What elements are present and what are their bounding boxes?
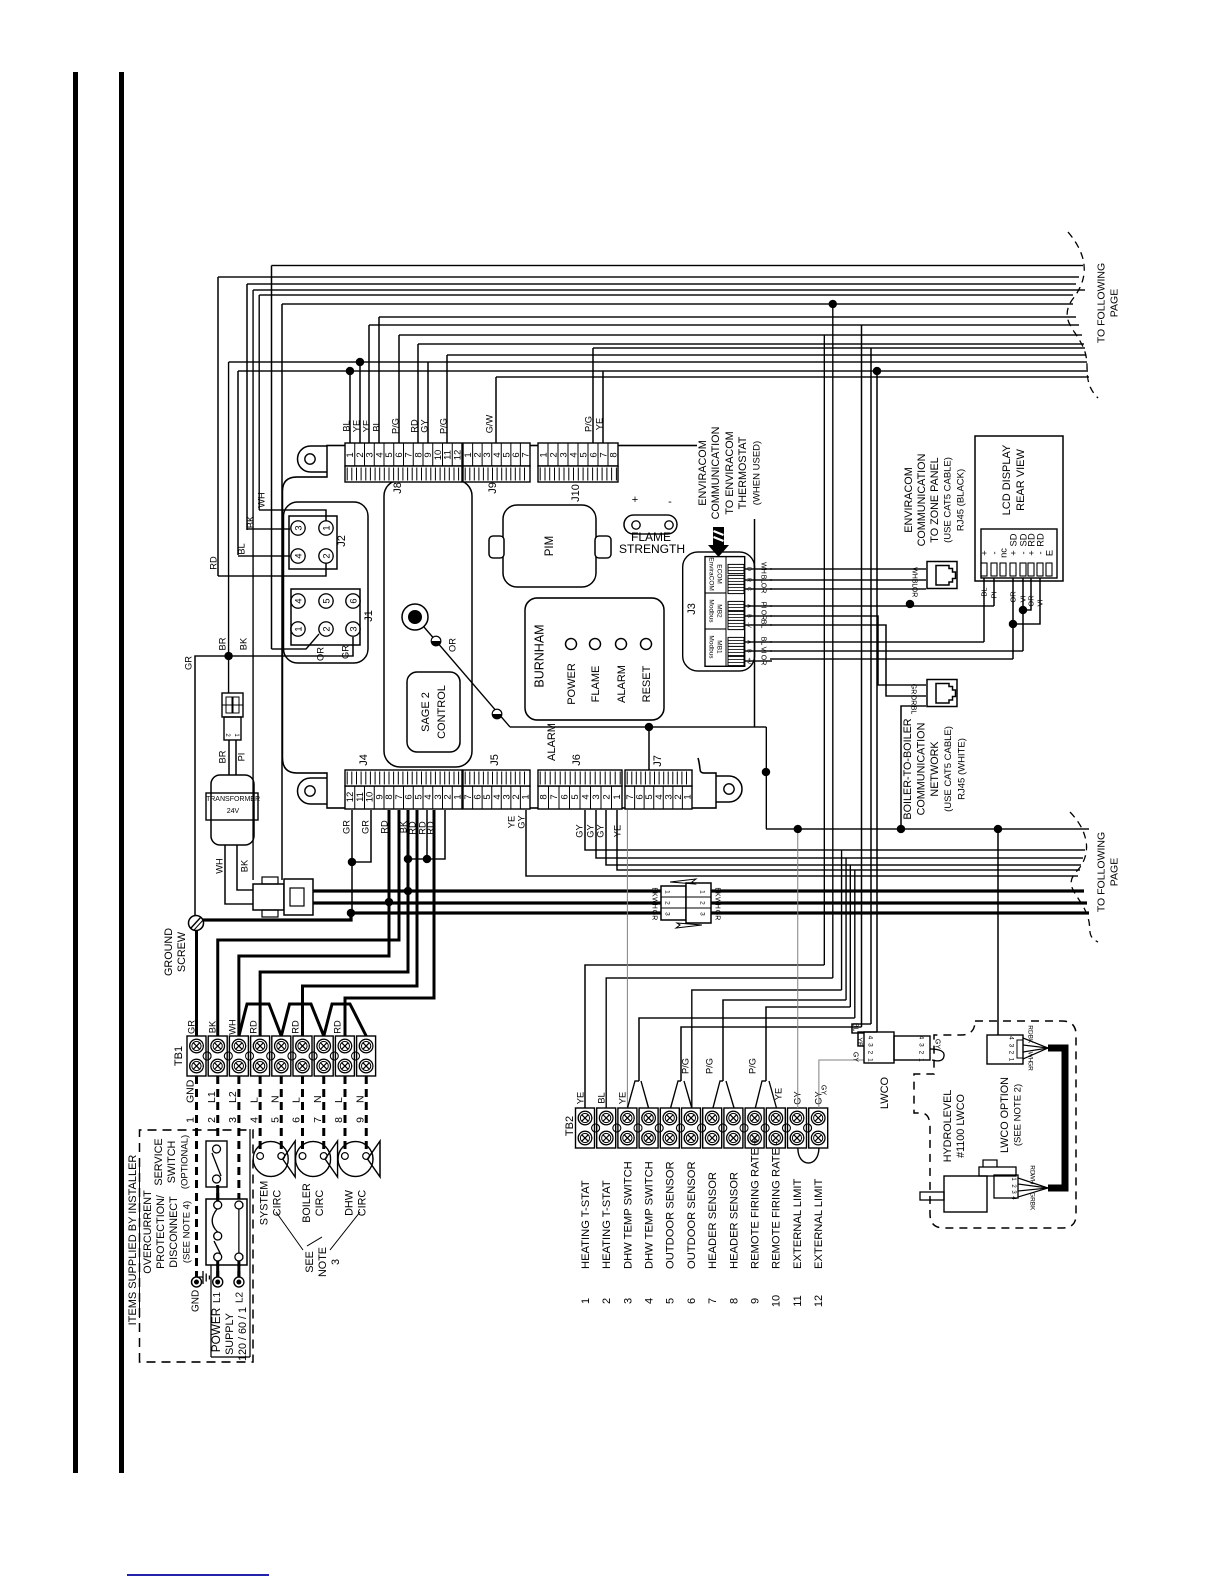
svg-text:REAR VIEW: REAR VIEW xyxy=(1015,449,1027,511)
TB1 terminal 7 xyxy=(314,1036,333,1076)
svg-text:BL: BL xyxy=(236,543,246,554)
svg-text:DISCONNECT: DISCONNECT xyxy=(168,1196,180,1268)
svg-text:GR: GR xyxy=(1027,1061,1034,1071)
svg-text:MB1: MB1 xyxy=(716,640,723,654)
J3 pin cells xyxy=(728,564,744,573)
svg-text:GR: GR xyxy=(714,910,721,921)
svg-text:SERVICE: SERVICE xyxy=(153,1138,165,1185)
potentiometer xyxy=(402,604,428,630)
svg-text:TO FOLLOWING: TO FOLLOWING xyxy=(1096,263,1108,343)
LWCO GY curl xyxy=(930,1049,944,1061)
arrow to J3 xyxy=(708,527,729,557)
connector J3 module outline xyxy=(683,552,755,671)
svg-text:HEATING T-STAT: HEATING T-STAT xyxy=(601,1180,613,1269)
wire TB2-12 GY xyxy=(819,1060,864,1108)
svg-text:4: 4 xyxy=(643,1298,655,1304)
wire BK TB1-2 to J4 xyxy=(218,810,399,1036)
svg-text:2: 2 xyxy=(601,1298,613,1304)
svg-text:PAGE: PAGE xyxy=(1109,858,1121,886)
mounting ear bottom-left xyxy=(298,778,327,804)
svg-text:P/G: P/G xyxy=(747,1058,757,1074)
svg-text:7: 7 xyxy=(521,452,532,457)
wire BL riser to RJ45 white xyxy=(901,706,926,829)
TB2 terminal 3 xyxy=(618,1108,637,1148)
svg-text:6: 6 xyxy=(348,598,358,603)
svg-text:OR: OR xyxy=(760,655,767,666)
wire xyxy=(259,294,1073,296)
RJ45 jack white xyxy=(927,680,957,707)
connector J7 xyxy=(625,786,692,809)
pair merge TB2 7-8 xyxy=(713,1081,723,1108)
off-page connector arc (top) xyxy=(1067,232,1098,398)
svg-text:BR: BR xyxy=(217,637,227,650)
wire xyxy=(258,295,260,510)
svg-text:P/G: P/G xyxy=(583,416,593,432)
svg-text:3: 3 xyxy=(918,1043,925,1047)
TB2 terminal 12 xyxy=(809,1108,828,1148)
svg-text:GND: GND xyxy=(185,1079,197,1103)
svg-text:+: + xyxy=(979,550,989,555)
svg-text:4: 4 xyxy=(918,1036,925,1040)
svg-text:TB1: TB1 xyxy=(173,1046,185,1066)
wire riser J8 pin2 xyxy=(359,362,361,443)
LWCO option connector top xyxy=(987,1035,1023,1064)
svg-text:OR: OR xyxy=(760,583,767,594)
svg-text:SD: SD xyxy=(1008,533,1018,546)
LED FLAME xyxy=(590,639,601,650)
wire GR TB1-1 to ground screw xyxy=(195,931,198,1037)
svg-text:BK: BK xyxy=(207,1020,217,1033)
svg-text:3: 3 xyxy=(664,912,671,916)
svg-text:9: 9 xyxy=(354,1117,366,1123)
svg-text:SAGE 2: SAGE 2 xyxy=(420,692,432,732)
svg-text:WH: WH xyxy=(714,897,721,909)
svg-text:STRENGTH: STRENGTH xyxy=(619,542,685,556)
TB1 terminal 1 xyxy=(187,1036,206,1076)
svg-text:WH: WH xyxy=(256,492,266,508)
wire J4 p4-p2 jumper xyxy=(408,810,445,859)
svg-text:PI: PI xyxy=(236,753,246,762)
svg-text:1: 1 xyxy=(521,794,532,799)
svg-text:YE: YE xyxy=(575,1092,585,1104)
svg-text:5: 5 xyxy=(321,598,331,603)
leader lines see note xyxy=(276,1212,303,1250)
circulator BOILER xyxy=(296,1142,331,1177)
svg-text:GY: GY xyxy=(574,824,584,837)
wire xyxy=(399,334,1082,336)
svg-text:RD: RD xyxy=(409,419,419,433)
svg-text:GR: GR xyxy=(341,820,351,834)
wire xyxy=(447,354,1086,356)
wire xyxy=(271,266,273,650)
svg-text:BL: BL xyxy=(760,637,767,646)
svg-text:2: 2 xyxy=(321,626,331,631)
junction dot xyxy=(762,768,770,776)
svg-text:2: 2 xyxy=(867,1051,874,1055)
wire WH to RJ45 black xyxy=(770,568,926,570)
overcurrent device box xyxy=(206,1199,247,1265)
svg-text:GR: GR xyxy=(183,656,193,670)
svg-text:9: 9 xyxy=(749,1298,761,1304)
wire xyxy=(238,370,1088,372)
svg-text:GY: GY xyxy=(792,1091,802,1104)
svg-text:COMMUNICATION: COMMUNICATION xyxy=(710,427,722,520)
svg-text:2: 2 xyxy=(918,1051,925,1055)
adjust screw 1 xyxy=(431,636,441,646)
svg-text:1: 1 xyxy=(580,1298,592,1304)
svg-text:GY: GY xyxy=(820,1085,827,1095)
svg-text:PIM: PIM xyxy=(544,536,556,556)
wire xyxy=(832,304,834,978)
svg-text:5: 5 xyxy=(665,1298,677,1304)
wire xyxy=(606,810,1081,865)
wire BL MB1 to LCD xyxy=(770,641,984,643)
wire RD to J2 pin2 xyxy=(218,563,326,576)
wire J4 p12 GR xyxy=(351,810,353,913)
page margin bar 1 xyxy=(73,72,78,1473)
LCD pin drop wires xyxy=(983,578,985,642)
svg-text:4: 4 xyxy=(1008,1036,1015,1040)
svg-text:2: 2 xyxy=(699,901,706,905)
power supply enclosure xyxy=(249,1129,251,1357)
svg-text:RD: RD xyxy=(1027,1025,1034,1035)
svg-text:(SEE NOTE 2): (SEE NOTE 2) xyxy=(1012,1084,1023,1146)
TB2 terminal 5 xyxy=(660,1108,679,1148)
svg-text:1: 1 xyxy=(293,626,303,631)
ground screw xyxy=(189,916,204,931)
svg-text:TB2: TB2 xyxy=(564,1116,576,1136)
wire BL MB2 down to RJ45 white xyxy=(770,625,926,696)
junction dot xyxy=(348,858,356,866)
wire xyxy=(841,850,843,990)
svg-text:BK: BK xyxy=(245,515,255,528)
wire GR from J1 pin3 to ground screw xyxy=(195,637,353,916)
wire xyxy=(379,316,1076,318)
svg-text:1: 1 xyxy=(452,794,463,799)
svg-text:OUTDOOR SENSOR: OUTDOOR SENSOR xyxy=(686,1161,698,1269)
svg-text:YE: YE xyxy=(506,816,516,828)
svg-text:PI: PI xyxy=(760,602,767,609)
ground symbol xyxy=(198,1276,203,1278)
wire bundle to following page (middle) xyxy=(766,828,1089,830)
svg-text:3: 3 xyxy=(622,1298,634,1304)
connector J3 xyxy=(705,557,745,667)
LED RESET xyxy=(641,639,652,650)
svg-text:P/G: P/G xyxy=(438,418,448,434)
svg-text:EnviraCOM: EnviraCOM xyxy=(708,557,715,591)
TB1 terminal 4 xyxy=(251,1036,270,1076)
page margin bar 2 xyxy=(119,72,124,1473)
svg-text:L2: L2 xyxy=(227,1091,239,1103)
svg-text:GR: GR xyxy=(360,820,370,834)
wire xyxy=(861,325,863,1027)
LWCO connector xyxy=(864,1032,894,1063)
svg-text:11: 11 xyxy=(792,1295,804,1306)
svg-text:LWCO: LWCO xyxy=(879,1076,891,1109)
svg-text:PROTECTION/: PROTECTION/ xyxy=(155,1195,167,1269)
wire xyxy=(849,865,851,1007)
dashed wire TB1-2 to L1 xyxy=(216,1076,219,1277)
TB1 terminal 3 xyxy=(229,1036,248,1076)
svg-text:2: 2 xyxy=(321,553,331,558)
svg-text:2: 2 xyxy=(224,733,230,737)
transformer secondary wires xyxy=(225,845,253,904)
svg-text:P/G: P/G xyxy=(680,1058,690,1074)
wire xyxy=(496,376,1089,378)
LCD display box xyxy=(975,436,1063,581)
connector J4 xyxy=(345,786,462,809)
dashed wires TB1 4-9 to circulators xyxy=(259,1076,262,1151)
svg-text:24V: 24V xyxy=(227,808,240,815)
svg-text:NETWORK: NETWORK xyxy=(929,741,941,797)
wire xyxy=(585,810,1085,850)
wire OR MB2 down to RJ45 white xyxy=(770,616,926,685)
connector J2 xyxy=(289,516,337,569)
svg-text:HEADER SENSOR: HEADER SENSOR xyxy=(728,1172,740,1269)
wire xyxy=(247,283,1076,285)
svg-text:GY: GY xyxy=(516,815,526,828)
TB2 terminal 6 xyxy=(682,1108,701,1148)
connector J5 xyxy=(463,786,530,809)
svg-text:L: L xyxy=(248,1097,260,1103)
svg-text:J10: J10 xyxy=(570,484,582,502)
junction dot LCD crossover 2 xyxy=(1009,620,1017,628)
RJ45 jack black xyxy=(927,562,957,589)
svg-text:J8: J8 xyxy=(392,482,404,494)
svg-text:P/G: P/G xyxy=(390,418,400,434)
svg-text:EXTERNAL LIMIT: EXTERNAL LIMIT xyxy=(792,1178,804,1269)
circulator DHW xyxy=(338,1142,373,1177)
svg-text:BK: BK xyxy=(714,887,721,897)
wire TB2-1 up xyxy=(585,965,824,1108)
svg-text:TO FOLLOWING: TO FOLLOWING xyxy=(1096,832,1108,912)
LWCO wires in xyxy=(852,1024,871,1033)
svg-text:OR: OR xyxy=(315,647,325,661)
svg-text:BL: BL xyxy=(760,620,767,629)
svg-text:THERMOSTAT: THERMOSTAT xyxy=(737,436,749,509)
svg-text:4: 4 xyxy=(867,1036,874,1040)
svg-text:TO ENVIRACOM: TO ENVIRACOM xyxy=(724,431,736,514)
svg-text:1: 1 xyxy=(233,733,239,737)
svg-text:ALARM: ALARM xyxy=(616,665,628,703)
wire xyxy=(526,810,1078,876)
connector J9 xyxy=(463,443,530,466)
wire riser J8 pin1 xyxy=(349,371,351,443)
svg-text:YE: YE xyxy=(617,1092,627,1104)
TB2 terminal 7 xyxy=(703,1108,722,1148)
adjust screw 2 xyxy=(492,709,502,719)
svg-text:(USE CAT5 CABLE): (USE CAT5 CABLE) xyxy=(943,726,954,812)
svg-text:YE: YE xyxy=(361,420,371,432)
wire xyxy=(252,290,254,880)
junction dot BR/GR xyxy=(224,652,232,660)
jumper TB1 5-7 xyxy=(281,1004,324,1036)
svg-text:TO ZONE PANEL: TO ZONE PANEL xyxy=(929,457,941,542)
wire OR to J1 pin2 xyxy=(272,634,320,649)
svg-text:1: 1 xyxy=(612,794,623,799)
svg-text:OR: OR xyxy=(910,695,917,706)
wire xyxy=(870,348,872,1024)
svg-text:TRANSFORMER: TRANSFORMER xyxy=(206,796,260,803)
connector J10 xyxy=(538,443,618,466)
display board xyxy=(525,598,664,720)
svg-text:WH: WH xyxy=(651,897,658,909)
3-pin latch arrows xyxy=(670,879,696,884)
jumper TB1 3-5 xyxy=(239,1004,281,1036)
svg-text:4: 4 xyxy=(581,794,592,799)
svg-text:NOTE: NOTE xyxy=(317,1247,329,1277)
TB2 terminal 10 xyxy=(766,1108,785,1148)
wire J4 p10 GR xyxy=(352,810,371,862)
board inner module rect (J8/J4 column) xyxy=(384,480,472,767)
wire BL to RJ45 black xyxy=(770,579,926,581)
dashed wire TB1-3 to L2 xyxy=(237,1076,240,1277)
svg-text:DHW TEMP SWITCH: DHW TEMP SWITCH xyxy=(644,1161,656,1269)
svg-text:RD: RD xyxy=(332,1020,342,1034)
junction dot external limit xyxy=(794,825,802,833)
svg-text:RD: RD xyxy=(248,1020,258,1034)
TB1 terminal 5 xyxy=(272,1036,291,1076)
TB2 terminal 8 xyxy=(724,1108,743,1148)
circulator SYSTEM xyxy=(253,1142,288,1177)
svg-text:BK: BK xyxy=(651,887,658,897)
pair merge TB2 5-6 xyxy=(671,1081,681,1108)
svg-text:OR: OR xyxy=(760,610,767,621)
thick wire BK xyxy=(313,889,1084,892)
module PIM xyxy=(503,505,596,587)
svg-text:OUTDOOR SENSOR: OUTDOOR SENSOR xyxy=(665,1161,677,1269)
wire xyxy=(218,276,1079,278)
svg-text:6: 6 xyxy=(686,1298,698,1304)
svg-text:J4: J4 xyxy=(358,754,370,766)
svg-text:GY: GY xyxy=(419,419,429,432)
svg-text:ITEMS SUPPLIED BY INSTALLER: ITEMS SUPPLIED BY INSTALLER xyxy=(127,1155,139,1326)
svg-text:N: N xyxy=(354,1095,366,1103)
junction dot alarm xyxy=(645,723,653,731)
svg-text:YE: YE xyxy=(351,420,361,432)
dashed wire TB1-1 to power GND xyxy=(195,1076,198,1277)
LED POWER xyxy=(566,639,577,650)
wire WH TB1-3 to J4 xyxy=(239,810,389,1036)
wire xyxy=(217,277,219,576)
svg-text:SUPPLY: SUPPLY xyxy=(224,1313,236,1355)
wire pot diagonal xyxy=(424,627,510,727)
svg-text:L2: L2 xyxy=(235,1291,246,1303)
svg-text:120 / 60 / 1: 120 / 60 / 1 xyxy=(237,1307,249,1361)
svg-text:J6: J6 xyxy=(571,754,583,766)
wire xyxy=(596,810,1083,858)
TB2 terminal 2 xyxy=(597,1108,616,1148)
svg-text:8: 8 xyxy=(728,1298,740,1304)
svg-text:10: 10 xyxy=(771,1295,783,1307)
svg-text:+: + xyxy=(632,494,638,506)
svg-text:-: - xyxy=(668,496,672,508)
junction dot LCD crossover 1 xyxy=(1019,606,1027,614)
svg-text:J2: J2 xyxy=(336,535,348,547)
svg-text:L: L xyxy=(291,1097,303,1103)
junction dots on thick wires xyxy=(385,898,393,906)
external limit jumper loop xyxy=(798,1148,819,1163)
svg-text:EXTERNAL LIMIT: EXTERNAL LIMIT xyxy=(813,1178,825,1269)
svg-text:7: 7 xyxy=(312,1117,324,1123)
wire RD TB1-4 to J4 xyxy=(260,810,408,1036)
connector J8 xyxy=(345,443,462,466)
connector J6 xyxy=(538,786,622,809)
wire J9 pin4 riser xyxy=(495,377,497,443)
mounting ear top-left xyxy=(298,446,327,472)
svg-text:CIRC: CIRC xyxy=(271,1190,283,1217)
wire xyxy=(876,371,878,1032)
svg-text:ENVIRACOM: ENVIRACOM xyxy=(697,440,709,505)
LCD pin connector xyxy=(981,529,1057,578)
svg-text:E: E xyxy=(1044,550,1054,556)
svg-text:COMMUNICATION: COMMUNICATION xyxy=(915,723,927,816)
wire xyxy=(228,362,230,656)
svg-text:BR: BR xyxy=(217,750,227,763)
junction dot J8 pin2 tap xyxy=(356,358,364,366)
svg-text:HEATING T-STAT: HEATING T-STAT xyxy=(580,1180,592,1269)
svg-text:2: 2 xyxy=(664,901,671,905)
svg-text:SYSTEM: SYSTEM xyxy=(258,1181,270,1225)
jumper TB1 7-9 xyxy=(324,1004,366,1036)
wire xyxy=(617,810,1080,870)
svg-text:12: 12 xyxy=(813,1295,825,1307)
svg-text:BK: BK xyxy=(238,637,248,650)
svg-text:5: 5 xyxy=(570,794,581,799)
svg-text:Modbus: Modbus xyxy=(708,635,715,659)
wire OR MB1 to LCD xyxy=(770,658,1013,660)
svg-text:3: 3 xyxy=(699,912,706,916)
svg-text:J7: J7 xyxy=(652,755,664,767)
svg-text:3: 3 xyxy=(330,1259,342,1265)
wire VI MB1 to LCD xyxy=(770,650,1023,652)
svg-text:nc: nc xyxy=(998,548,1008,558)
svg-text:(USE CAT5 CABLE): (USE CAT5 CABLE) xyxy=(942,457,953,543)
TB2 terminal 11 xyxy=(788,1108,807,1148)
svg-text:J5: J5 xyxy=(489,754,501,766)
svg-text:N: N xyxy=(269,1095,281,1103)
svg-text:2: 2 xyxy=(602,794,613,799)
footer link line xyxy=(127,1574,269,1576)
svg-text:L: L xyxy=(333,1097,345,1103)
svg-text:PAGE: PAGE xyxy=(1109,289,1121,317)
svg-text:YE: YE xyxy=(594,418,604,430)
svg-text:8: 8 xyxy=(333,1117,345,1123)
svg-text:ALARM: ALARM xyxy=(546,723,558,761)
svg-text:RD: RD xyxy=(208,556,218,570)
dashed box items supplied by installer xyxy=(140,1130,254,1362)
wire WH to J2 pin1 xyxy=(259,510,326,521)
svg-text:BK: BK xyxy=(239,859,249,872)
wire TB2-6 up xyxy=(692,990,842,1108)
leader wire right of J3 xyxy=(754,519,756,727)
svg-text:GR: GR xyxy=(910,684,917,695)
wire down to LWCO connector xyxy=(997,829,999,1035)
svg-text:5: 5 xyxy=(269,1117,281,1123)
svg-text:POWER: POWER xyxy=(209,1308,223,1353)
svg-text:GY: GY xyxy=(852,1052,859,1062)
svg-text:8: 8 xyxy=(539,794,550,799)
svg-text:RD: RD xyxy=(290,1020,300,1034)
TB2 terminal 9 xyxy=(745,1108,764,1148)
svg-text:WH: WH xyxy=(760,562,767,574)
svg-text:GROUND: GROUND xyxy=(163,928,175,976)
junction dot top bundle xyxy=(829,300,837,308)
svg-text:POWER: POWER xyxy=(566,663,578,705)
wire xyxy=(418,343,1084,345)
svg-text:BL: BL xyxy=(852,1023,859,1032)
svg-text:#1100 LWCO: #1100 LWCO xyxy=(955,1094,967,1158)
